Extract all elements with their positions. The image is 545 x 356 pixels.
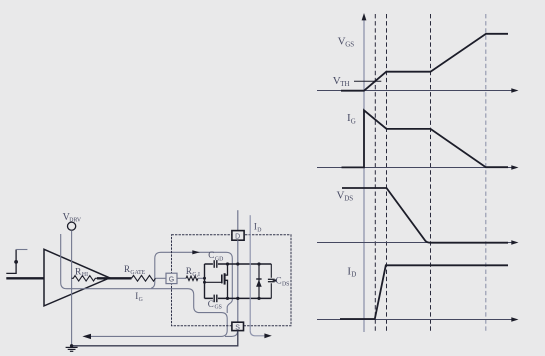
svg-text:C: C [208,250,214,260]
svg-text:G: G [351,118,356,126]
wire drain to rail and through model [236,240,239,322]
resistor RHI [72,268,97,281]
svg-text:C: C [208,299,214,309]
time axis vertical [362,13,367,332]
axis ID [317,317,519,322]
wire gate current loop (upper arrowed run) [151,252,232,313]
label VTH with level tick [333,75,382,88]
wire input [6,277,44,279]
svg-text:G: G [139,297,143,303]
svg-text:DS: DS [344,195,353,203]
waveform IG [342,110,509,167]
ground [66,347,78,351]
wire G to RGI [177,277,186,279]
MOSFET model dashed box [172,235,292,326]
resistor RGI [186,266,200,280]
svg-text:D: D [257,228,261,234]
svg-text:D: D [235,233,240,240]
dashed timeline t2 [386,14,388,332]
input step signal [6,250,27,274]
label VGS [338,35,355,48]
dashed timeline t3 [430,14,432,332]
wire driver output [97,277,132,279]
label ID with current path [250,215,272,338]
arrow IG return left [82,334,91,339]
svg-text:G,I: G,I [192,272,200,278]
svg-text:R: R [124,264,130,274]
waveform ID [340,265,508,319]
label ID [347,265,356,278]
svg-text:G: G [169,277,174,284]
resistor RGATE [124,264,156,281]
wire gate node branch [203,264,206,298]
wire source return to ground [70,331,238,348]
wire drain vertical [237,210,239,231]
svg-text:DS: DS [282,282,289,288]
svg-text:D: D [351,271,356,279]
axis IG [317,165,519,170]
node G box [166,273,177,283]
diode body [256,262,262,300]
wire RGATE to G [156,277,167,279]
waveform VGS [341,34,508,91]
svg-text:GD: GD [215,256,223,262]
label IG [135,291,142,303]
capacitor CGS [205,295,272,311]
wire loop to S terminal [225,331,238,337]
svg-text:S: S [235,324,240,331]
label IG [347,112,356,125]
node S box [232,322,244,331]
svg-text:C: C [276,276,282,286]
svg-text:GS: GS [215,305,222,311]
waveform VDS [342,188,508,243]
svg-text:HI: HI [82,272,88,278]
op-amp driver U1 [44,249,110,306]
svg-text:GATE: GATE [130,270,145,276]
dashed timeline t4 [485,14,487,332]
wire VDRV vertical [71,230,73,345]
wire gate current loop (driver return, lower run, bottom arrow run) [61,234,228,336]
svg-text:R: R [186,266,192,276]
terminal VDRV [68,222,76,230]
capacitor CGD [205,250,272,268]
arrow IG direction right [192,250,200,254]
axis VGS [317,88,519,93]
transistor Q1 MOSFET [205,262,230,300]
svg-text:GS: GS [345,41,354,49]
svg-text:TH: TH [340,80,349,88]
wire RGI to gate node [198,277,205,279]
node D box [232,231,244,241]
capacitor CDS [268,264,290,298]
axis VDS [317,240,519,245]
label VDS [337,189,354,202]
label VDRV [63,212,82,224]
dashed timeline t1 [374,14,376,332]
